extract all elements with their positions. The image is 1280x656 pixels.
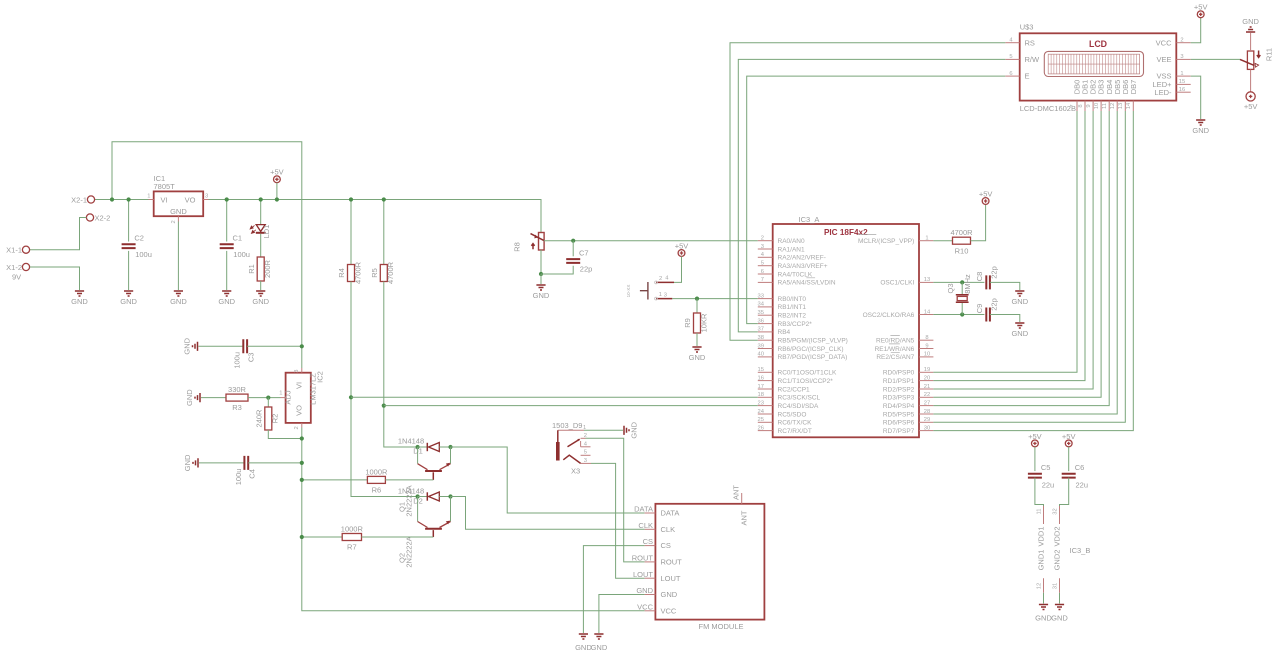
wire X1-2 to GND [30,267,80,290]
svg-text:3: 3 [761,244,764,250]
svg-text:16: 16 [758,375,764,381]
svg-text:RE0/RD/AN5: RE0/RD/AN5 [876,338,915,345]
svg-text:ANT: ANT [740,510,749,525]
LED LD1 [250,225,271,239]
junction D1 cathode [448,445,452,449]
svg-text:VO: VO [185,196,196,205]
svg-text:GND: GND [533,291,550,300]
svg-text:IC3_B: IC3_B [1070,546,1091,555]
diode D1 1N4148 [398,437,439,456]
voltage regulator IC2 LM317LZ [279,368,324,430]
pin 27 RD4/PSP4 [883,400,934,410]
junction R8/C7 gnd node [539,272,543,276]
pin 24 RC5/SDO [758,409,807,419]
overline marks (MCLR, SS, RD, WR, CS) [806,234,899,352]
pin 32 VDD2 [1053,506,1062,547]
svg-text:15: 15 [758,367,764,373]
svg-text:CS: CS [643,537,653,546]
wire GND2 [1059,593,1061,604]
svg-text:DATA: DATA [661,509,680,518]
wire D1 cathode to Q1 emitter [450,447,452,464]
pin FM VCC [637,602,677,615]
pin 10 RE2/CS/AN7 [876,352,933,362]
pin 30 RD7/PSP7 [883,425,934,435]
diode D2 1N4148 [398,486,439,505]
svg-text:DB7: DB7 [1129,80,1138,95]
wire R/W [738,59,1005,332]
svg-text:25: 25 [758,417,764,423]
LCD glass graphic [1044,51,1143,76]
ground R11 top (inverted) [1242,17,1259,32]
pin 3 VEE [1156,54,1190,64]
pin FM ROUT [632,554,682,567]
junction C2 top [127,197,131,201]
ground GND1 [1039,605,1048,610]
svg-text:1: 1 [1180,71,1183,77]
wire C5 to pin [1035,478,1044,506]
IC U3 PIC 18F4x2 (IC3_A) [773,215,919,437]
pin 13 OSC1/CLKI [880,277,933,287]
svg-text:R10: R10 [955,246,969,255]
svg-text:GND: GND [183,337,192,354]
pin 33 RB0/INT0 [758,293,807,303]
wire LD1 to R1 [260,234,262,257]
ground R3 (rotated) [185,389,200,406]
LCD display U$3 LCD-DMC1602B [1020,23,1177,114]
wire DB4 bus [933,111,1109,406]
svg-text:LED-: LED- [1154,88,1172,97]
svg-text:1N4148: 1N4148 [398,486,424,495]
svg-text:GND: GND [120,297,137,306]
junction XTAL bottom [960,312,964,316]
wire R1 to GND [260,281,262,290]
svg-text:X1-1: X1-1 [6,246,22,255]
pin 6 E [1005,71,1029,81]
wire R10 to +5V [971,204,986,240]
svg-text:R3: R3 [232,403,242,412]
ground C3 (rotated) [183,337,198,354]
connector X2-2 [86,213,110,222]
svg-text:40: 40 [758,352,764,358]
supply +5V rail [270,168,284,183]
supply +5V R11 bottom [1244,92,1258,111]
pin 19 RD0/PSP0 [883,367,934,377]
pin 4 RA2/AN2/VREF- [758,252,826,262]
svg-text:22u: 22u [1042,481,1055,490]
trimmer R8 [513,233,545,252]
svg-text:100u: 100u [233,250,250,259]
transistor Q2 2N2222A [398,521,451,568]
wire E [747,76,1006,324]
svg-text:2N2222A: 2N2222A [405,536,414,567]
ground C8 [1011,291,1028,306]
pin 7 RA5/AN4/SS/LVDIN [758,277,836,287]
transistor Q1 2N2222A [398,463,451,517]
svg-text:RB1/INT1: RB1/INT1 [778,304,807,311]
svg-text:X2-1: X2-1 [71,195,87,204]
resistor R7 1000R [341,524,364,551]
svg-text:RE1/WR/AN6: RE1/WR/AN6 [875,346,915,353]
svg-text:X1-2: X1-2 [6,263,22,272]
svg-text:R5: R5 [370,268,379,278]
wire C6 top lead [1068,447,1070,471]
wire DB1 bus [933,111,1085,381]
supply +5V LCD VCC [1194,3,1208,18]
svg-text:RB4: RB4 [778,329,791,336]
svg-text:GND: GND [689,353,706,362]
svg-text:20: 20 [924,375,930,381]
junction R2 join [300,436,304,440]
svg-text:RC6/TX/CK: RC6/TX/CK [778,420,813,427]
svg-text:9: 9 [1086,104,1092,107]
wire DB0 bus [933,111,1077,372]
capacitor C4 100u [234,456,257,485]
ground R1 [252,291,269,306]
svg-text:C6: C6 [1075,463,1085,472]
svg-text:330R: 330R [228,385,247,394]
pin 36 RB3/CCP2* [758,318,813,328]
wire R11 bottom to +5V [1250,69,1252,91]
junction XTAL top [960,280,964,284]
wire VO to R7 [302,536,342,538]
svg-text:CS: CS [661,541,671,550]
svg-text:12: 12 [1110,103,1116,109]
ground GND2 [1055,605,1064,610]
svg-text:RD4/PSP4: RD4/PSP4 [883,403,915,410]
svg-text:+5V: +5V [979,189,993,198]
svg-text:GND: GND [1242,17,1259,26]
svg-text:33: 33 [758,293,764,299]
pin 11 VDD1 [1037,506,1046,547]
svg-text:RD1/PSP1: RD1/PSP1 [883,378,915,385]
wire RS [730,43,1005,341]
svg-text:RA4/T0CLK: RA4/T0CLK [778,271,813,278]
wire VO to R6 [302,479,368,481]
svg-text:C5: C5 [1041,463,1051,472]
svg-text:11: 11 [1037,508,1043,514]
svg-text:CLK: CLK [638,521,653,530]
svg-text:35: 35 [758,310,764,316]
svg-text:OSC1/CLKI: OSC1/CLKI [880,280,914,287]
svg-text:32: 32 [1053,508,1059,514]
ground C1 [218,291,235,306]
svg-text:IC3_A: IC3_A [799,215,820,224]
wire FM GND [599,595,645,634]
wire rail to R5 [383,200,385,265]
svg-text:RA3/AN3/VREF+: RA3/AN3/VREF+ [778,263,828,270]
svg-text:C9: C9 [975,304,984,314]
junction R6 join [300,478,304,482]
svg-text:11: 11 [1102,103,1108,109]
pin 14 OSC2/CLKO/RA6 [863,309,934,319]
pin 29 RD6/PSP6 [883,417,934,427]
pin 26 RC7/RX/DT [758,425,812,435]
pin 35 RB2/INT2 [758,310,807,320]
svg-text:R1: R1 [247,264,256,274]
svg-text:13: 13 [1118,103,1124,109]
svg-text:9: 9 [925,343,928,349]
wire R7 to Q2 base [362,536,434,538]
wire rail to C1 [226,200,228,242]
wire C8 to GND [990,282,1020,290]
wire GND to C4 [199,462,244,464]
pin 21 RD2/PSP2 [883,384,934,394]
junction C7 tap [571,239,575,243]
svg-text:24: 24 [758,409,765,415]
wire C9 to GND [990,315,1020,323]
pin 17 RC2/CCP1 [758,384,810,394]
pin 9 RE1/WR/AN6 [875,343,934,353]
junction ADJ node [266,396,270,400]
wire OSC1 to C8 [933,281,984,283]
pin 16 RC1/T1OSI/CCP2* [758,375,834,385]
svg-text:16: 16 [1179,87,1185,93]
svg-text:R8: R8 [513,242,522,252]
capacitor C8 22p [975,266,999,289]
svg-text:GND: GND [1035,614,1052,623]
svg-text:22p: 22p [580,265,593,274]
svg-text:10KR: 10KR [699,313,708,332]
svg-text:GND: GND [591,643,608,652]
pin FM CLK [638,521,675,534]
junction D2 cathode [448,494,452,498]
junction R9 tap [695,297,699,301]
svg-text:34: 34 [758,302,765,308]
junction D1 anode [416,445,420,449]
svg-text:5: 5 [1009,54,1012,60]
svg-text:200R: 200R [263,259,272,278]
wire RC4 SDA to PIC [384,405,758,407]
pin 1 VSS [1156,71,1190,81]
svg-text:+5V: +5V [1028,432,1042,441]
svg-text:VI: VI [295,382,304,389]
svg-text:FM MODULE: FM MODULE [699,622,744,631]
pin 8 DB1 [1078,80,1090,111]
resistor R4 4700R [337,261,362,284]
svg-text:36: 36 [758,318,764,324]
wire wiper to RA0 [544,240,758,242]
svg-text:VEE: VEE [1156,55,1171,64]
svg-text:100u: 100u [233,352,242,369]
svg-text:C7: C7 [579,249,589,258]
svg-text:GND: GND [252,297,269,306]
wire DB2 bus [933,111,1093,389]
svg-text:+5V: +5V [1194,3,1208,12]
wire GND to C3 [199,345,244,347]
svg-text:RS: RS [1025,38,1035,47]
wire rail to LD1 [260,200,262,225]
wire C1 to GND [226,251,228,290]
pin FM DATA [634,505,679,518]
pin 12 GND1 [1037,550,1046,593]
wire OSC2 to C9 [933,314,984,316]
svg-text:RD6/PSP6: RD6/PSP6 [883,420,915,427]
wire R5 down to D1 node [384,282,418,448]
svg-text:RB3/CCP2*: RB3/CCP2* [778,321,813,328]
capacitor C7 22p [566,249,592,274]
svg-text:2: 2 [294,426,300,429]
svg-text:X2-2: X2-2 [95,213,111,222]
pin 3 RA1/AN1 [758,244,805,254]
capacitor C6 22u [1062,463,1088,490]
svg-text:18: 18 [758,392,764,398]
module FM MODULE [655,504,764,631]
pin 2 VCC [1156,38,1191,48]
svg-text:21: 21 [924,384,930,390]
svg-text:1N4148: 1N4148 [398,437,424,446]
resistor R9 10KR [683,313,708,333]
wire to D1 [418,446,428,448]
svg-text:GND2: GND2 [1053,550,1062,571]
svg-text:X3: X3 [571,467,580,476]
svg-text:VCC: VCC [661,606,677,615]
pin FM ANT [732,485,749,526]
pin 38 RB5/PGM/(ICSP_VLVP) [758,335,848,345]
junction D2 anode [416,494,420,498]
wire Q1 to FM DATA [451,447,645,513]
junction R5 top [382,197,386,201]
svg-text:LCD-DMC1602B: LCD-DMC1602B [1020,104,1076,113]
wire R4 down to D2 node [351,282,418,497]
wire R3 to ADJ [248,397,281,399]
ground C2 [120,291,137,306]
svg-text:23: 23 [758,400,764,406]
svg-text:22: 22 [924,392,930,398]
ground R9 [689,347,706,362]
svg-text:RC3/SCK/SCL: RC3/SCK/SCL [778,395,821,402]
svg-text:R11: R11 [1264,48,1273,61]
svg-text:5: 5 [584,450,587,456]
svg-text:IC2: IC2 [316,371,325,383]
svg-text:1503_D9: 1503_D9 [552,421,582,430]
wire D2 anode to Q2 collector [417,497,419,522]
svg-text:10-XX: 10-XX [626,285,631,298]
svg-text:C8: C8 [975,272,984,282]
pin 20 RD1/PSP1 [883,375,934,385]
svg-text:8MHz: 8MHz [963,274,972,294]
svg-text:22u: 22u [1076,481,1089,490]
pin 14 DB7 [1126,80,1138,111]
ground CS [579,634,588,639]
wire C3 to 9V feed [247,345,302,347]
svg-text:RB2/INT2: RB2/INT2 [778,313,807,320]
wire VSS [1191,76,1201,119]
svg-text:RD3/PSP3: RD3/PSP3 [883,395,915,402]
svg-text:VCC: VCC [637,602,653,611]
wire R9 to GND [696,333,698,346]
svg-text:19: 19 [924,367,930,373]
svg-text:RD0/PSP0: RD0/PSP0 [883,370,915,377]
svg-text:RA2/AN2/VREF-: RA2/AN2/VREF- [778,255,826,262]
svg-text:100u: 100u [234,469,243,486]
svg-text:GND: GND [630,421,639,438]
svg-text:R6: R6 [372,486,382,495]
svg-text:C4: C4 [248,469,257,479]
svg-text:VDD1: VDD1 [1037,526,1046,546]
svg-text:VCC: VCC [1156,38,1172,47]
svg-text:ANT: ANT [732,485,741,500]
pin 5 RA3/AN3/VREF+ [758,261,828,271]
svg-text:R2: R2 [271,414,280,424]
svg-text:RC1/T1OSI/CCP2*: RC1/T1OSI/CCP2* [778,378,834,385]
wire IC1 GND [177,222,179,291]
pin 37 RB4 [758,327,791,337]
wire ADJ to R2 [267,398,269,407]
wire RC3 SCL to PIC [351,396,758,398]
svg-text:26: 26 [758,425,764,431]
svg-text:GND: GND [1051,614,1068,623]
svg-text:VDD2: VDD2 [1053,526,1062,546]
svg-text:LOUT: LOUT [661,574,681,583]
svg-text:RA0/AN0: RA0/AN0 [778,238,805,245]
svg-text:R7: R7 [347,543,357,552]
pin 4 RS [1005,38,1035,48]
svg-text:RD7/PSP7: RD7/PSP7 [883,428,915,435]
svg-text:RC2/CCP1: RC2/CCP1 [778,386,811,393]
svg-text:GND: GND [71,297,88,306]
wire rail to R4 [350,200,352,265]
svg-text:2: 2 [761,236,764,242]
pin 10 DB3 [1094,80,1106,111]
svg-text:1: 1 [279,391,282,397]
wire R2 to VO node [268,430,302,439]
wire DB5 bus [933,111,1117,414]
svg-text:38: 38 [758,335,764,341]
svg-text:GND: GND [185,389,194,406]
svg-text:RA1/AN1: RA1/AN1 [778,246,805,253]
svg-text:1: 1 [147,194,150,200]
junction +5V tap [275,197,279,201]
svg-text:R/W: R/W [1025,55,1041,64]
wire C6 to pin [1060,478,1069,506]
svg-text:100u: 100u [135,250,152,259]
wire +5V rail to R8 [209,200,542,233]
svg-text:GND: GND [1011,329,1028,338]
wire DB7 bus [933,111,1133,431]
svg-text:RB0/INT0: RB0/INT0 [778,296,807,303]
wire VO rail down to FM VCC [302,428,645,611]
pin FM CS [643,537,671,550]
wire switch to RB0 [672,298,758,300]
capacitor C5 22u [1028,463,1054,490]
svg-text:3: 3 [1180,54,1183,60]
resistor R1 200R [247,257,272,281]
connector pad X1-1 [22,246,29,253]
svg-text:7: 7 [761,277,764,283]
wire jack pin1 to GND [584,429,623,431]
pin FM LOUT [633,570,681,583]
connector pad X2-1 [87,196,94,203]
svg-text:RE2/CS/AN7: RE2/CS/AN7 [876,354,914,361]
svg-text:LCD: LCD [1089,39,1107,49]
svg-text:RB5/PGM/(ICSP_VLVP): RB5/PGM/(ICSP_VLVP) [778,338,848,345]
connector pad X2-2 [86,214,93,221]
svg-text:GND: GND [636,586,653,595]
supply +5V switch [675,241,689,256]
svg-text:29: 29 [924,417,930,423]
supply +5V C5 top [1028,432,1042,447]
wire +5V to switch pin4 [674,256,682,282]
wire Q2 base lead [432,530,434,537]
ground LCD VSS [1192,120,1209,135]
wire C7 to gnd node [541,266,573,274]
wire C5 top lead [1034,447,1036,471]
svg-text:GND: GND [661,590,678,599]
svg-text:RC4/SDI/SDA: RC4/SDI/SDA [778,403,819,410]
wire to C7 [572,241,574,257]
resistor R2 240R [255,407,280,430]
capacitor C3 100u [233,339,256,368]
